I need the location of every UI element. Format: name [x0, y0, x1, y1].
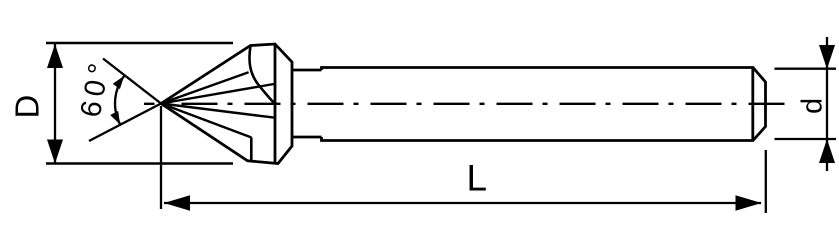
- neck bottom edge: [292, 136, 322, 139]
- shank end silhouette vertical (chamfer/cylinder junction): [751, 68, 754, 141]
- dimension d: top arrowhead: [819, 45, 835, 69]
- cutting edge line upper-mid: [161, 72, 249, 103]
- flute edge bottom vertical: [250, 138, 253, 163]
- angle arc arrowhead top: [113, 76, 124, 89]
- dimension D: top extension line: [46, 42, 233, 44]
- angle leg upper-left: [103, 59, 161, 104]
- head silhouette vertical (cylinder/chamfer junction): [274, 44, 277, 164]
- dimension D: dimension line: [54, 44, 56, 163]
- dimension d: top extension line: [775, 68, 837, 70]
- angle arc arrowhead bottom: [110, 111, 120, 125]
- dimension L: left extension line (from tip): [160, 106, 162, 209]
- center line (tool axis, dash-dot): [144, 103, 791, 105]
- dimension d: bottom extension line: [775, 138, 837, 140]
- dimension d: dimension line: [826, 37, 828, 171]
- cutting edge line lower-mid: [161, 104, 252, 138]
- dimension D: bottom extension line: [46, 162, 233, 164]
- svg-text:D: D: [9, 95, 46, 119]
- dimension D: top arrowhead: [47, 44, 63, 68]
- svg-text:L: L: [467, 158, 488, 199]
- dimension D: bottom arrowhead: [47, 140, 63, 164]
- shank outline: [322, 68, 766, 141]
- svg-text:d: d: [797, 98, 829, 114]
- cutting edge line upper-shallow: [161, 84, 274, 104]
- countersink head outline: [161, 44, 292, 164]
- angle arc 60 degrees: [115, 76, 124, 125]
- angle leg lower-left: [89, 104, 161, 142]
- neck top edge: [292, 69, 322, 72]
- dimension L: right arrowhead: [736, 195, 762, 211]
- flute curve top: [249, 46, 273, 103]
- cutting edge line lower-shallow: [161, 104, 274, 118]
- dimension L: dimension line: [164, 202, 761, 204]
- dimension L: left arrowhead: [164, 195, 190, 211]
- dimension d: bottom arrowhead: [819, 139, 835, 163]
- dimension L: right extension line: [765, 150, 767, 213]
